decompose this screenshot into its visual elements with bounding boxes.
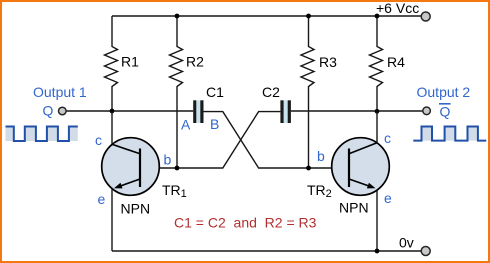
capacitor C1 [193,84,224,123]
wire bottom 0v rail [112,250,422,252]
transistor TR1 [102,111,160,251]
node A label [181,117,191,133]
resistor R2 [170,16,205,168]
svg-text:C1 = C2 and R2 = R3: C1 = C2 and R2 = R3 [174,215,317,231]
svg-text:b: b [317,148,325,164]
junction R2 top [175,14,180,19]
svg-text:B: B [210,116,219,132]
svg-text:R3: R3 [319,54,337,70]
junction TR2 emitter / bottom rail [375,249,380,254]
svg-text:e: e [98,191,106,207]
svg-text:+6 Vcc: +6 Vcc [376,0,419,16]
node 0v label [399,235,414,251]
node Output 1 label [33,84,87,100]
junction R3 top [306,14,311,19]
node Q label [43,103,54,119]
terminal output 2 [423,107,431,115]
svg-text:C2: C2 [262,84,280,100]
wire TR1 base to C2 [140,112,280,168]
svg-text:c: c [95,132,102,148]
value label C1 = C2 and R2 = R3 [174,215,317,231]
wire Q-bar output line [291,110,423,112]
junction TR2 base / R3 bottom [306,166,311,171]
junction R1 bottom / TR1 collector [110,109,115,114]
pin e label TR2 [384,190,392,206]
junction R4 bottom / TR2 collector [375,109,380,114]
label TR2 [307,182,332,200]
svg-text:A: A [181,117,191,133]
svg-text:e: e [384,190,392,206]
transistor TR2 [332,111,390,251]
waveform output 2 [413,127,486,141]
wire C1 B to TR2 base [204,112,350,168]
svg-text:Output 2: Output 2 [417,84,471,100]
svg-text:R1: R1 [121,54,139,70]
svg-text:0v: 0v [399,235,414,251]
label NPN TR2 [339,200,369,216]
svg-text:R2: R2 [186,54,204,70]
svg-text:C1: C1 [206,84,224,100]
wire top supply rail [112,15,421,17]
pin e label TR1 [98,191,106,207]
pin c label TR2 [384,130,391,146]
terminal +6 Vcc [421,12,430,21]
label NPN TR1 [121,201,151,217]
svg-text:b: b [164,152,172,168]
waveform output 1 [6,127,78,142]
node +6 Vcc label [376,0,419,16]
svg-text:NPN: NPN [339,200,369,216]
terminal 0v [421,247,430,256]
pin c label TR1 [95,132,102,148]
svg-text:NPN: NPN [121,201,151,217]
node Output 2 label [417,84,471,100]
svg-text:Q: Q [440,104,451,120]
resistor R1 [105,16,140,111]
node B label [210,116,219,132]
svg-text:Q: Q [43,103,54,119]
label TR1 [162,182,187,200]
svg-text:R4: R4 [387,54,405,70]
node Q-bar label [439,104,451,120]
wire Q output line [67,110,194,112]
pin b label TR1 [164,152,172,168]
pin b label TR2 [317,148,325,164]
resistor R3 [301,16,337,168]
svg-text:c: c [384,130,391,146]
svg-text:Output 1: Output 1 [33,84,87,100]
terminal output 1 [59,107,67,115]
resistor R4 [370,16,406,111]
junction TR1 base / R2 bottom [175,166,180,171]
junction R4 top [375,14,380,19]
capacitor C2 [262,84,291,123]
